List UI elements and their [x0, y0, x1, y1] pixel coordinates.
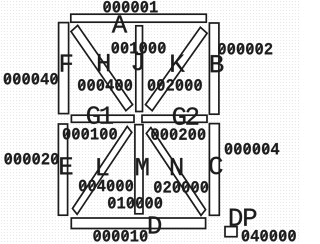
code label 000004 (segment C)	[225, 143, 279, 155]
segment name label N	[171, 158, 182, 175]
segment M	[135, 125, 143, 214]
segment L	[73, 127, 132, 215]
segment name label L	[97, 158, 108, 175]
segment name label H	[98, 54, 109, 71]
code label 020000 (segment N)	[154, 181, 208, 193]
segment K	[146, 27, 208, 110]
segment name label A	[112, 15, 128, 32]
code label 001000 (segment J)	[112, 42, 166, 54]
segment name label G1	[87, 106, 113, 124]
code label 000001 (segment A)	[103, 1, 157, 13]
segment D	[71, 218, 205, 229]
segment name label J	[133, 53, 143, 70]
code label 000020 (segment E)	[4, 153, 58, 165]
code label 000002 (segment B)	[218, 43, 272, 55]
segment A	[71, 14, 207, 22]
segment C	[209, 124, 219, 216]
segment N	[146, 128, 205, 216]
code label 004000 (segment L)	[79, 180, 133, 192]
segment H	[71, 25, 133, 110]
segment F	[59, 23, 69, 114]
segment G2	[142, 115, 207, 122]
segment E	[58, 124, 67, 215]
segment name label F	[61, 55, 72, 72]
code label 040000 (segment DP)	[242, 230, 296, 242]
code label 000200 (segment G2)	[151, 128, 205, 140]
code label 002000 (segment K)	[148, 79, 202, 91]
segment B	[209, 23, 219, 114]
segment name label K	[171, 55, 184, 72]
segment G1	[71, 115, 134, 122]
segment name label C	[209, 157, 222, 175]
segment name label D	[149, 216, 161, 233]
segment name label G2	[173, 107, 198, 125]
code label 010000 (segment M)	[108, 197, 162, 209]
segment name label M	[136, 158, 148, 175]
segment name label DP	[230, 209, 256, 226]
segment DP	[225, 227, 237, 237]
segment name label E	[60, 157, 72, 174]
code label 000010 (segment D)	[93, 230, 147, 242]
code label 000100 (segment G1)	[63, 128, 117, 140]
segment J	[136, 26, 143, 112]
code label 000400 (segment H)	[78, 79, 132, 91]
code label 000040 (segment F)	[4, 73, 58, 85]
segment name label B	[211, 55, 224, 72]
